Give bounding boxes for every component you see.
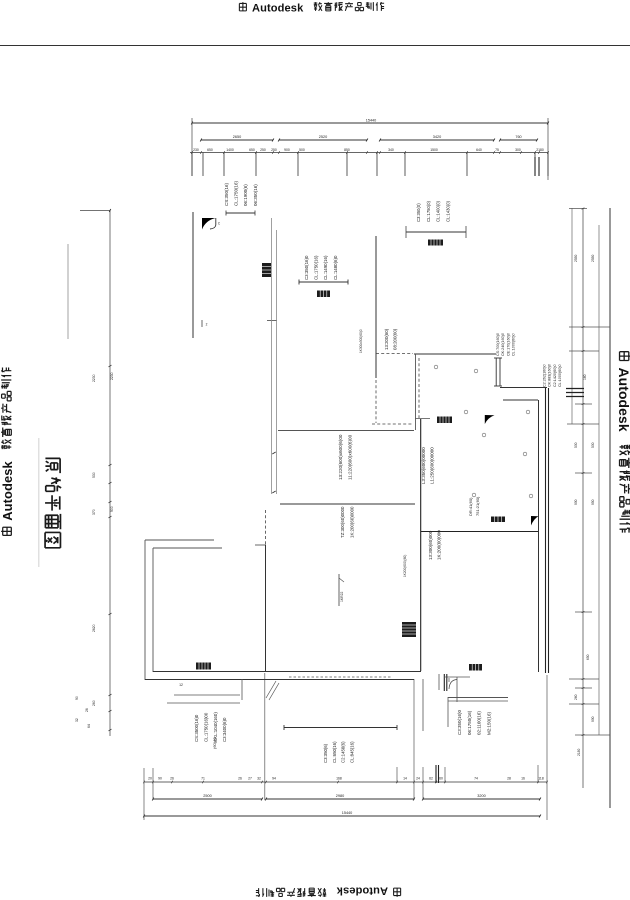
svg-text:90: 90: [75, 696, 79, 700]
svg-text:900: 900: [284, 148, 290, 152]
svg-text:Autodesk: Autodesk: [616, 368, 630, 432]
svg-text:CE:170(160)0: CE:170(160)0: [506, 333, 510, 356]
svg-text:2230: 2230: [92, 374, 96, 382]
svg-text:75: 75: [495, 148, 499, 152]
svg-text:900: 900: [574, 499, 578, 505]
svg-text:530: 530: [92, 472, 96, 478]
svg-text:C3:350(16)0: C3:350(16)0: [457, 709, 462, 735]
svg-text:C2:1420(60)0: C2:1420(60)0: [553, 364, 557, 387]
svg-text:13:220(600)x600(6)00: 13:220(600)x600(6)00: [338, 434, 343, 480]
svg-text:2: 2: [206, 323, 208, 327]
svg-text:1KR22: 1KR22: [340, 592, 344, 602]
svg-text:650: 650: [249, 148, 255, 152]
svg-text:850: 850: [344, 148, 350, 152]
svg-text:13:300(60)000: 13:300(60)000: [428, 530, 433, 560]
svg-text:2550: 2550: [591, 254, 595, 262]
svg-text:26: 26: [238, 777, 242, 781]
svg-text:20: 20: [148, 777, 152, 781]
svg-text:650: 650: [207, 148, 213, 152]
svg-text:1K200(600)(60): 1K200(600)(60): [403, 555, 407, 577]
svg-text:26: 26: [170, 777, 174, 781]
svg-text:DR:41(60): DR:41(60): [468, 497, 473, 516]
svg-text:28: 28: [507, 777, 511, 781]
svg-text:C3:350(0): C3:350(0): [416, 203, 421, 222]
svg-text:16: 16: [521, 777, 525, 781]
svg-text:260: 260: [92, 700, 96, 706]
svg-text:2180: 2180: [577, 748, 581, 756]
svg-text:1K:200(60)0000: 1K:200(60)0000: [350, 506, 355, 538]
svg-text:14: 14: [403, 777, 407, 781]
svg-text:24: 24: [416, 777, 420, 781]
svg-text:CS:3500(16)0: CS:3500(16)0: [194, 714, 199, 742]
svg-text:2980: 2980: [336, 794, 344, 798]
svg-text:CK:240(160)0: CK:240(160)0: [501, 333, 505, 356]
svg-text:500: 500: [299, 148, 305, 152]
svg-text:CL:1430(0): CL:1430(0): [445, 200, 450, 222]
svg-text:15440: 15440: [366, 119, 377, 123]
svg-text:94: 94: [272, 777, 276, 781]
svg-text:530: 530: [574, 442, 578, 448]
svg-text:26: 26: [85, 708, 89, 712]
svg-text:13:200(60): 13:200(60): [384, 328, 389, 350]
svg-text:71: 71: [201, 777, 205, 781]
svg-text:2520: 2520: [319, 135, 327, 139]
svg-text:C3:350(16)0: C3:350(16)0: [304, 255, 309, 280]
svg-text:3200: 3200: [477, 794, 485, 798]
svg-text:260: 260: [574, 694, 578, 700]
svg-text:250: 250: [260, 148, 266, 152]
svg-text:M2:150(16): M2:150(16): [486, 711, 491, 735]
svg-text:06:1750(16): 06:1750(16): [467, 710, 472, 735]
svg-text:C2:262(160)0: C2:262(160)0: [543, 364, 547, 387]
svg-text:Autodesk: Autodesk: [336, 885, 388, 897]
svg-text:2620: 2620: [92, 624, 96, 632]
svg-text:230: 230: [193, 148, 199, 152]
svg-text:168: 168: [336, 777, 342, 781]
svg-text:2230: 2230: [110, 372, 114, 380]
svg-text:CK:883(160)0: CK:883(160)0: [548, 364, 552, 387]
svg-text:62: 62: [429, 777, 433, 781]
svg-text:751:21(60): 751:21(60): [475, 496, 480, 516]
svg-text:32: 32: [257, 777, 261, 781]
svg-text:2500: 2500: [203, 794, 211, 798]
svg-text:2180: 2180: [536, 148, 544, 152]
svg-text:CL:1480(6)0: CL:1480(6)0: [333, 255, 338, 280]
svg-text:1400: 1400: [226, 148, 234, 152]
svg-text:250: 250: [271, 148, 277, 152]
svg-text:340: 340: [388, 148, 394, 152]
svg-text:CL:1750(0): CL:1750(0): [426, 200, 431, 222]
svg-text:12: 12: [179, 683, 183, 687]
svg-text:Autodesk: Autodesk: [252, 3, 304, 15]
svg-text:CL:845(16): CL:845(16): [349, 741, 354, 763]
svg-text:60: 60: [439, 777, 443, 781]
svg-text:370: 370: [92, 509, 96, 515]
svg-text:CL:1000(60)0: CL:1000(60)0: [558, 364, 562, 387]
svg-text:CL:1000(60)0: CL:1000(60)0: [512, 333, 516, 356]
svg-text:2550: 2550: [574, 254, 578, 262]
svg-text:900: 900: [591, 716, 595, 722]
svg-text:C3:350(6): C3:350(6): [323, 743, 328, 763]
svg-text:CL:1400(0): CL:1400(0): [436, 200, 441, 222]
svg-text:CL:1750(16): CL:1750(16): [234, 180, 239, 206]
svg-text:15440: 15440: [342, 811, 353, 815]
svg-text:1500: 1500: [430, 148, 438, 152]
svg-text:CL:650(16): CL:650(16): [332, 741, 337, 763]
svg-text:300: 300: [515, 148, 521, 152]
svg-text:32: 32: [75, 718, 79, 722]
svg-text:90: 90: [158, 777, 162, 781]
svg-text:CL:1750(16): CL:1750(16): [314, 255, 319, 280]
svg-text:L3:350(600)00000: L3:350(600)00000: [421, 447, 426, 484]
svg-text:L1:250(600)00000: L1:250(600)00000: [430, 447, 435, 484]
svg-text:C2:1450(6): C2:1450(6): [341, 741, 346, 763]
svg-text:160: 160: [583, 374, 587, 380]
svg-text:760: 760: [515, 135, 521, 139]
svg-text:1K:200(60)000: 1K:200(60)000: [437, 530, 442, 560]
svg-text:1K300x300(60)0: 1K300x300(60)0: [359, 329, 363, 353]
svg-text:06:350(16): 06:350(16): [253, 184, 258, 206]
svg-text:CL:1490(16): CL:1490(16): [323, 255, 328, 280]
svg-text:950: 950: [591, 499, 595, 505]
svg-text:900: 900: [110, 506, 114, 512]
svg-text:11:220(600)x600(6)00: 11:220(600)x600(6)00: [348, 434, 353, 480]
svg-text:650: 650: [586, 654, 590, 660]
svg-text:02:1160(16): 02:1160(16): [477, 711, 482, 735]
svg-text:(60)40: (60)40: [212, 737, 217, 749]
svg-text:CS:700(160)0: CS:700(160)0: [496, 333, 500, 356]
svg-text:640: 640: [476, 148, 482, 152]
svg-text:CS:350(16): CS:350(16): [224, 182, 229, 206]
svg-text:27: 27: [248, 777, 252, 781]
svg-text:TZ:300(60)0000: TZ:300(60)0000: [340, 506, 345, 538]
svg-text:06:1900(6): 06:1900(6): [243, 184, 248, 206]
svg-text:2650: 2650: [233, 135, 241, 139]
svg-text:64: 64: [87, 724, 91, 728]
svg-text:Autodesk: Autodesk: [0, 461, 15, 521]
svg-text:3420: 3420: [433, 135, 441, 139]
svg-text:CL:1750(16)00: CL:1750(16)00: [203, 712, 208, 742]
svg-text:C3:3400(6)0: C3:3400(6)0: [222, 717, 227, 742]
svg-text:530: 530: [591, 442, 595, 448]
svg-text:74: 74: [474, 777, 478, 781]
svg-text:08:200(60): 08:200(60): [393, 328, 398, 350]
svg-text:118: 118: [538, 777, 544, 781]
